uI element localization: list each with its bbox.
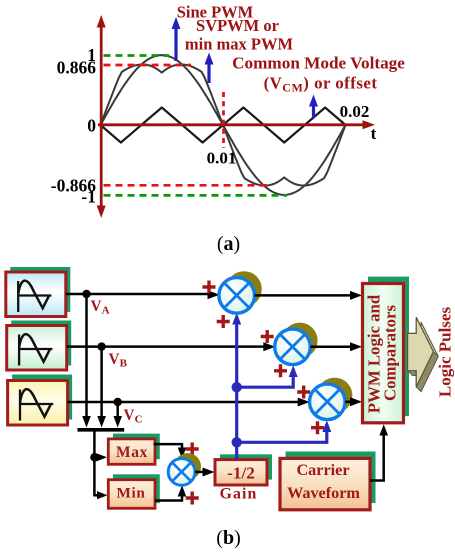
logic pulses 3D block arrow: dark side left of lower wing (416, 371, 421, 392)
small summer shadow (174, 453, 201, 480)
blue wire branch to middle summer (237, 369, 294, 387)
plus sign at Min input of small summer (186, 492, 199, 505)
plus sign at bottom input of bottom summer (311, 421, 324, 434)
node junction dot before Max (90, 453, 98, 461)
wire VB drop to min-max bar (100, 347, 103, 419)
PWM logic and comparators block (363, 284, 404, 423)
wire into Max (94, 456, 100, 459)
svg-text:min max PWM: min max PWM (185, 35, 294, 54)
green dashed line y=-1 (104, 194, 288, 197)
wire VA drop to min-max bar (85, 294, 88, 419)
sine waveform (101, 55, 346, 195)
node VB junction dot (97, 342, 105, 350)
wire VC drop to min-max bar (116, 402, 119, 419)
svg-text:Max: Max (116, 444, 148, 461)
wire Min output to small summer (155, 489, 182, 501)
common-mode triangle waveform (101, 108, 346, 143)
source block A shadow (10, 267, 70, 312)
blue node dot branch to middle summer (232, 382, 242, 392)
blue node dot branch to bottom summer (232, 437, 242, 447)
svg-text:Logic Pulses: Logic Pulses (436, 307, 455, 398)
wire VA from source A to top summer (66, 293, 215, 296)
node VC junction dot (114, 398, 122, 406)
svg-text:0.02: 0.02 (340, 102, 370, 121)
source block C shadow (12, 375, 72, 420)
source B sine glyph (19, 334, 52, 365)
svg-text:Gain: Gain (220, 486, 258, 503)
wire arrow into Min (97, 491, 108, 499)
wire VC from source C to bottom summer (68, 401, 305, 404)
svg-text:Common Mode Voltage: Common Mode Voltage (232, 53, 405, 72)
svg-text:Min: Min (116, 484, 145, 501)
wire bottom summer to PWM block (345, 401, 358, 404)
node VA junction dot (82, 290, 90, 298)
svg-text:SVPWM or: SVPWM or (196, 16, 279, 35)
plus sign at bottom input of top summer (217, 315, 230, 328)
logic pulses 3D block arrow: dark side below shaft (408, 371, 421, 376)
blue wire branch to bottom summer (237, 424, 327, 442)
middle summer shadow (282, 323, 318, 359)
svg-text:0.866: 0.866 (57, 57, 97, 77)
svg-text:0.01: 0.01 (207, 149, 237, 168)
source C sine glyph (20, 389, 53, 420)
t-axis (horizontal dark red arrow) (98, 123, 366, 126)
bottom summer (VC + offset) (310, 384, 346, 420)
plus sign at Max input of small summer (186, 443, 199, 456)
source A sine glyph (18, 281, 51, 312)
source block C (sine source VC) (8, 381, 68, 426)
source block A (sine source VA) (6, 272, 66, 317)
blue gain output riser to top summer (235, 317, 238, 460)
logic pulses 3D block arrow: back extrusion copy (412, 322, 438, 392)
logic pulses 3D block arrow: dark lower-right diagonal side (416, 352, 438, 392)
top summer (VA + offset) (219, 278, 255, 314)
blue pointer arrow to Sine PWM (174, 27, 177, 61)
wire VB from source B to middle summer (67, 345, 271, 348)
wire Carrier Waveform to PWM logic block (370, 429, 384, 481)
svg-text:(VCM) or offset: (VCM) or offset (264, 74, 378, 95)
-1/2 gain block shadow (220, 454, 272, 479)
svg-text:(b): (b) (216, 527, 240, 549)
svg-text:Waveform: Waveform (287, 484, 360, 502)
source block B shadow (11, 321, 71, 366)
wire top summer to PWM block (255, 294, 359, 297)
plus sign at left input of middle summer (261, 330, 274, 343)
Min block shadow (113, 474, 160, 503)
wire Max output to small summer (154, 444, 183, 455)
min-max collector bar (78, 428, 125, 432)
red dashed line y=-0.866 (104, 184, 268, 187)
svg-text:t: t (371, 124, 377, 143)
small summer (adds max and min) (168, 459, 195, 486)
blue pointer arrow to min max PWM (207, 62, 210, 83)
svg-text:-1/2: -1/2 (227, 463, 255, 482)
wire small summer to -1/2 gain (195, 471, 210, 474)
svg-text:Comparators: Comparators (381, 305, 400, 401)
PWM logic block shadow (368, 277, 409, 417)
red dashed line y=+0.866 (104, 64, 192, 67)
bottom summer shadow (317, 378, 353, 414)
svg-text:-1: -1 (81, 187, 96, 207)
middle summer (VB + offset) (275, 329, 311, 365)
y-axis (vertical dark red arrow) (100, 24, 103, 210)
Min block (108, 480, 155, 509)
wire bar down to Max/Min (94, 430, 104, 495)
plus sign at left input of bottom summer (297, 386, 310, 399)
green dashed line y=+1 (104, 54, 170, 57)
wire middle summer to PWM block (310, 346, 358, 349)
Carrier Waveform block shadow (286, 452, 376, 504)
SVPWM (min-max) saddle waveform (101, 65, 346, 186)
svg-text:0: 0 (87, 116, 96, 136)
Carrier Waveform block (280, 458, 370, 509)
source block B (sine source VB) (7, 326, 67, 371)
plus sign at left input of top summer (203, 281, 216, 294)
top summer shadow (226, 271, 262, 307)
-1/2 gain block (215, 460, 267, 485)
blue pointer arrow to offset label (312, 104, 315, 118)
svg-text:Carrier: Carrier (296, 461, 349, 479)
logic pulses 3D block arrow: face (408, 317, 434, 387)
Max block shadow (113, 434, 160, 460)
svg-text:(a): (a) (217, 233, 240, 255)
plus sign at bottom input of middle summer (274, 364, 287, 377)
Max block (108, 439, 155, 464)
red dashed vertical marker at t=0.01 (222, 92, 225, 148)
